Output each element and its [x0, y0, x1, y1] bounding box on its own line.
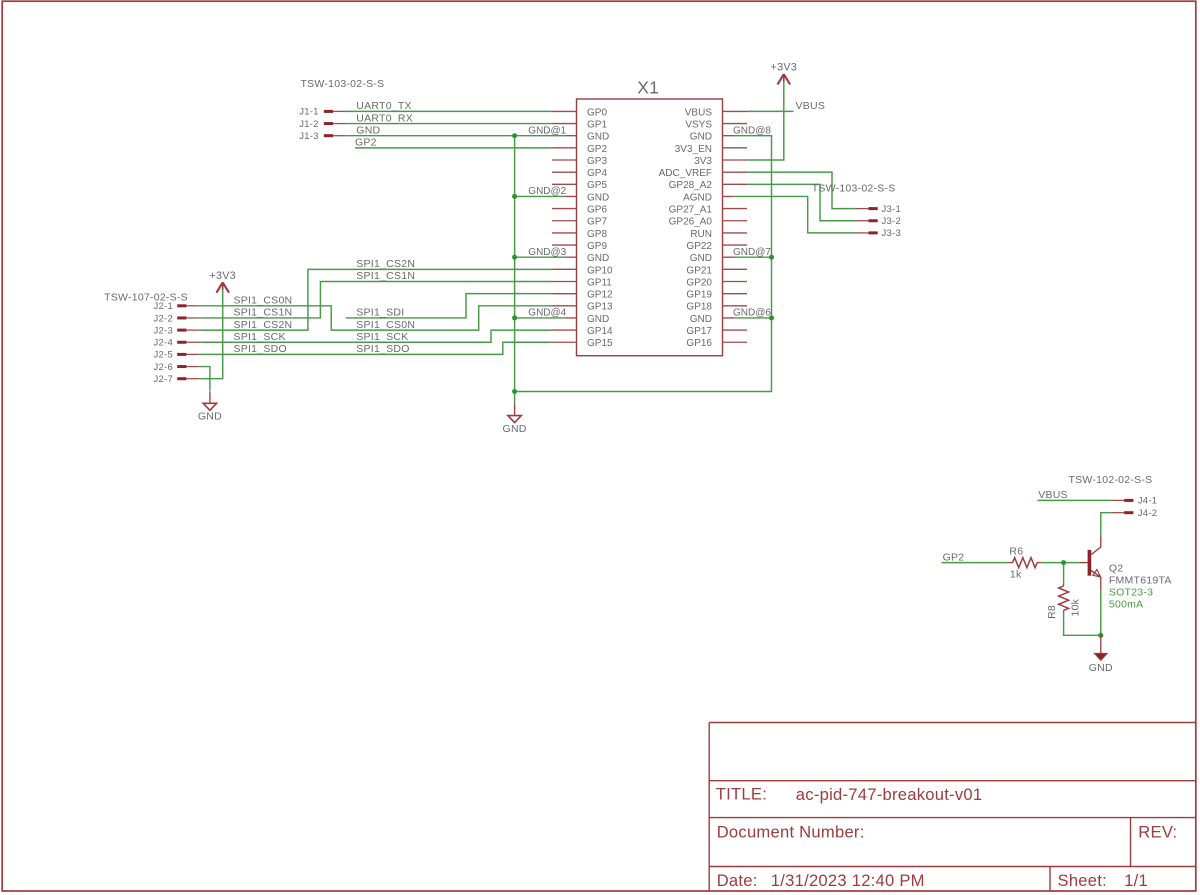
svg-text:J2-6: J2-6	[154, 362, 173, 373]
svg-text:GP10: GP10	[587, 265, 613, 276]
svg-text:GP1: GP1	[587, 119, 607, 130]
svg-text:J1-2: J1-2	[299, 119, 318, 130]
svg-text:GND: GND	[587, 132, 609, 143]
svg-text:J3-3: J3-3	[882, 228, 901, 239]
svg-text:Document Number:: Document Number:	[717, 823, 865, 842]
svg-text:500mA: 500mA	[1109, 599, 1144, 611]
svg-text:GP28_A2: GP28_A2	[669, 180, 713, 191]
svg-text:GP21: GP21	[686, 265, 712, 276]
svg-text:GND: GND	[1089, 662, 1113, 674]
svg-text:GP17: GP17	[686, 326, 712, 337]
svg-text:GND@4: GND@4	[528, 308, 566, 319]
svg-text:SPI1_SDI: SPI1_SDI	[356, 307, 404, 319]
svg-text:GP18: GP18	[686, 302, 712, 313]
svg-text:J3-2: J3-2	[882, 216, 901, 227]
svg-text:GP7: GP7	[587, 217, 607, 228]
svg-text:GP6: GP6	[587, 205, 607, 216]
svg-text:UART0_RX: UART0_RX	[356, 112, 413, 124]
svg-text:GP3: GP3	[587, 156, 607, 167]
svg-text:1k: 1k	[1010, 569, 1022, 581]
svg-text:GP16: GP16	[686, 338, 712, 349]
svg-text:J2-2: J2-2	[154, 313, 173, 324]
svg-text:UART0_TX: UART0_TX	[356, 100, 412, 112]
svg-text:1/31/2023 12:40 PM: 1/31/2023 12:40 PM	[771, 871, 925, 890]
svg-text:J2-7: J2-7	[154, 374, 173, 385]
svg-text:GND: GND	[356, 124, 380, 136]
svg-text:GND@7: GND@7	[733, 247, 771, 258]
svg-text:TITLE:: TITLE:	[716, 785, 767, 804]
svg-text:GP12: GP12	[587, 290, 613, 301]
svg-text:GND: GND	[198, 411, 222, 423]
svg-text:VBUS: VBUS	[1038, 489, 1068, 501]
svg-text:REV:: REV:	[1138, 823, 1177, 842]
svg-text:GP13: GP13	[587, 302, 613, 313]
svg-text:X1: X1	[637, 77, 659, 97]
svg-text:RUN: RUN	[690, 229, 712, 240]
svg-text:GND: GND	[690, 253, 712, 264]
svg-text:R8: R8	[1046, 605, 1058, 619]
svg-text:TSW-107-02-S-S: TSW-107-02-S-S	[104, 292, 188, 304]
svg-text:J2-3: J2-3	[154, 325, 173, 336]
svg-text:ac-pid-747-breakout-v01: ac-pid-747-breakout-v01	[796, 785, 983, 804]
svg-text:GND@6: GND@6	[733, 308, 771, 319]
svg-text:GND: GND	[690, 314, 712, 325]
svg-text:GP15: GP15	[587, 338, 613, 349]
svg-text:GP26_A0: GP26_A0	[669, 217, 713, 228]
svg-text:SPI1_SCK: SPI1_SCK	[234, 331, 286, 343]
svg-text:J3-1: J3-1	[882, 204, 901, 215]
svg-text:GND: GND	[503, 423, 527, 435]
svg-text:GP19: GP19	[686, 290, 712, 301]
svg-text:SPI1_SDO: SPI1_SDO	[356, 343, 409, 355]
svg-text:GP5: GP5	[587, 180, 607, 191]
svg-text:GND: GND	[690, 132, 712, 143]
svg-text:+3V3: +3V3	[209, 270, 236, 282]
svg-text:ADC_VREF: ADC_VREF	[659, 168, 712, 179]
svg-text:SPI1_CS1N: SPI1_CS1N	[234, 307, 293, 319]
svg-text:Sheet:: Sheet:	[1058, 871, 1107, 890]
svg-text:GND: GND	[587, 253, 609, 264]
svg-text:J4-1: J4-1	[1138, 496, 1157, 507]
svg-text:GP11: GP11	[587, 277, 612, 288]
svg-text:GP2: GP2	[943, 551, 965, 563]
svg-text:SPI1_CS2N: SPI1_CS2N	[234, 319, 293, 331]
svg-text:GP20: GP20	[686, 277, 712, 288]
svg-text:GND@8: GND@8	[733, 125, 771, 136]
svg-text:SPI1_CS0N: SPI1_CS0N	[234, 295, 293, 307]
svg-text:GP8: GP8	[587, 229, 607, 240]
svg-text:AGND: AGND	[683, 192, 712, 203]
svg-text:GND@2: GND@2	[528, 186, 566, 197]
svg-text:J4-2: J4-2	[1138, 508, 1157, 519]
svg-text:TSW-102-02-S-S: TSW-102-02-S-S	[1069, 474, 1153, 486]
svg-text:Q2: Q2	[1109, 563, 1124, 575]
svg-text:J2-5: J2-5	[154, 350, 173, 361]
svg-text:SPI1_SCK: SPI1_SCK	[356, 331, 408, 343]
svg-text:VBUS: VBUS	[796, 100, 826, 112]
svg-text:VBUS: VBUS	[685, 107, 713, 118]
svg-text:SPI1_CS1N: SPI1_CS1N	[356, 270, 415, 282]
svg-text:J2-4: J2-4	[154, 338, 173, 349]
svg-text:TSW-103-02-S-S: TSW-103-02-S-S	[301, 78, 385, 90]
svg-text:J1-1: J1-1	[299, 107, 318, 118]
svg-text:GP27_A1: GP27_A1	[669, 205, 713, 216]
svg-text:GND: GND	[587, 314, 609, 325]
svg-text:10k: 10k	[1070, 598, 1082, 616]
svg-text:GND@1: GND@1	[528, 125, 566, 136]
svg-text:TSW-103-02-S-S: TSW-103-02-S-S	[812, 183, 896, 195]
svg-text:+3V3: +3V3	[771, 62, 798, 74]
svg-text:VSYS: VSYS	[685, 119, 712, 130]
svg-text:GP2: GP2	[355, 137, 377, 149]
svg-text:SPI1_CS2N: SPI1_CS2N	[356, 258, 415, 270]
svg-text:GND@3: GND@3	[528, 247, 566, 258]
svg-text:GP9: GP9	[587, 241, 607, 252]
svg-text:SPI1_CS0N: SPI1_CS0N	[356, 319, 415, 331]
svg-text:GP0: GP0	[587, 107, 607, 118]
svg-text:R6: R6	[1009, 545, 1023, 557]
svg-text:GP22: GP22	[686, 241, 712, 252]
svg-text:SOT23-3: SOT23-3	[1109, 587, 1153, 599]
svg-text:GP2: GP2	[587, 144, 607, 155]
svg-text:GND: GND	[587, 192, 609, 203]
svg-text:GP14: GP14	[587, 326, 613, 337]
svg-text:FMMT619TA: FMMT619TA	[1109, 574, 1172, 586]
svg-text:SPI1_SDO: SPI1_SDO	[234, 343, 287, 355]
svg-text:Date:: Date:	[717, 871, 758, 890]
svg-text:3V3: 3V3	[694, 156, 712, 167]
svg-text:GP4: GP4	[587, 168, 607, 179]
svg-text:J1-3: J1-3	[299, 131, 318, 142]
svg-text:1/1: 1/1	[1124, 871, 1148, 890]
svg-text:3V3_EN: 3V3_EN	[675, 144, 712, 155]
